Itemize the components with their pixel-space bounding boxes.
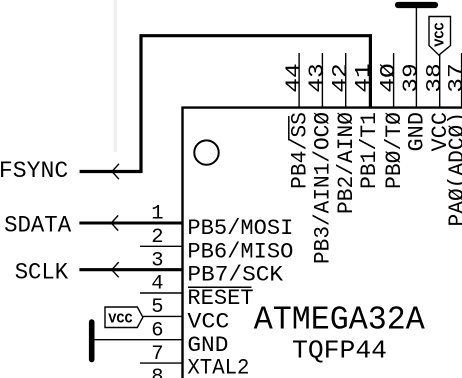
arrowhead on FSYNC wire — [112, 164, 119, 179]
supply symbol VCC tag (top, on pin 38) — [429, 17, 451, 56]
svg-text:37: 37 — [446, 63, 462, 93]
svg-text:44: 44 — [283, 63, 306, 93]
svg-text:GND: GND — [405, 112, 430, 152]
overline for RESET — [188, 286, 252, 288]
svg-text:PAØ(ADCØ): PAØ(ADCØ) — [445, 112, 462, 227]
pin 43 stub — [321, 53, 323, 108]
pin 40 stub — [393, 53, 395, 108]
svg-text:39: 39 — [401, 63, 424, 93]
svg-text:3: 3 — [151, 249, 163, 272]
svg-text:PB7/SCK: PB7/SCK — [187, 263, 284, 288]
scan artifact vertical streak — [114, 0, 117, 152]
overline for SS of PB4/SS — [288, 116, 290, 140]
svg-text:PB5/MOSI: PB5/MOSI — [187, 216, 293, 241]
op-amp/IC outline U1 ATMEGA32A (top and left edges) — [183, 108, 462, 378]
pin 5 stub from VCC tag — [142, 315, 183, 317]
wire net SDATA (pin 1) — [79, 221, 182, 224]
pin 2 stub — [140, 245, 183, 247]
pin-1 indicator circle — [194, 140, 218, 164]
svg-text:38: 38 — [424, 63, 447, 93]
svg-text:4: 4 — [151, 273, 163, 296]
svg-text:ATMEGA32A: ATMEGA32A — [254, 302, 425, 339]
pin 38 stub from VCC tag — [439, 54, 441, 108]
svg-text:7: 7 — [151, 343, 163, 366]
svg-text:43: 43 — [307, 63, 330, 93]
svg-text:PB4/SS: PB4/SS — [287, 112, 312, 189]
wire net SCLK (pin 3) — [79, 268, 182, 271]
svg-text:PB6/MISO: PB6/MISO — [187, 239, 293, 264]
svg-text:8: 8 — [151, 366, 163, 378]
svg-text:PB1/T1: PB1/T1 — [357, 112, 382, 189]
svg-text:2: 2 — [151, 226, 163, 249]
pin 37 stub — [461, 53, 462, 108]
wire net FSYNC — [80, 36, 371, 172]
svg-text:4Ø: 4Ø — [378, 63, 401, 93]
pin 7 stub — [140, 362, 183, 364]
svg-text:PB3/AIN1/OCØ: PB3/AIN1/OCØ — [311, 112, 336, 264]
ground symbol GND bar (left, on pin 6) — [89, 322, 95, 360]
svg-text:1: 1 — [151, 203, 163, 226]
svg-text:5: 5 — [151, 296, 163, 319]
svg-text:PBØ/TØ: PBØ/TØ — [382, 112, 407, 189]
pin 44 stub — [298, 53, 300, 108]
pin 42 stub — [345, 53, 347, 108]
svg-text:PB2/AINØ: PB2/AINØ — [334, 112, 359, 214]
svg-text:RESET: RESET — [187, 286, 253, 311]
arrowhead on SDATA wire — [111, 215, 118, 230]
svg-text:SCLK: SCLK — [15, 259, 69, 285]
pin 6 stub / wire from GND bar — [93, 339, 183, 341]
svg-text:VCC: VCC — [187, 309, 229, 334]
supply symbol VCC tag (left, on pin 5) — [105, 307, 143, 328]
svg-text:41: 41 — [353, 63, 376, 93]
svg-text:VCC: VCC — [108, 311, 133, 327]
svg-text:SDATA: SDATA — [4, 213, 71, 239]
svg-text:6: 6 — [151, 319, 163, 342]
svg-text:XTAL2: XTAL2 — [187, 355, 249, 378]
pin 4 stub — [140, 292, 183, 294]
svg-text:42: 42 — [330, 63, 353, 93]
svg-text:FSYNC: FSYNC — [0, 158, 68, 184]
svg-text:GND: GND — [187, 333, 228, 358]
arrowhead on SCLK wire — [112, 262, 119, 277]
pin 39 stub / wire to GND bar — [415, 7, 417, 108]
svg-text:TQFP44: TQFP44 — [292, 337, 387, 366]
svg-text:VCC: VCC — [433, 22, 449, 47]
ground symbol GND bar (top, on pin 39) — [398, 2, 435, 8]
